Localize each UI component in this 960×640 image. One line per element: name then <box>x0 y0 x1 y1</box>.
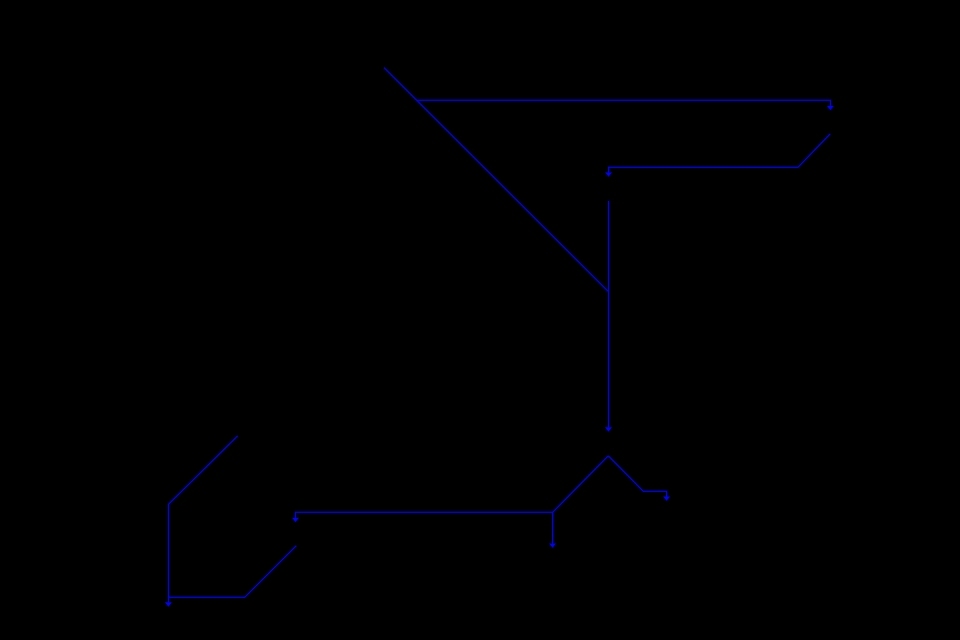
arrowhead into node6 <box>549 544 556 548</box>
arrowhead into node7 <box>663 497 670 501</box>
wire edge nodeX to node8 <box>168 436 237 603</box>
wire edge node5 to node8 <box>168 546 296 598</box>
wire edge node4 to node5 <box>296 456 609 518</box>
arrowhead into node3 <box>605 172 612 176</box>
arrowhead into node8 <box>165 602 172 607</box>
wire edge node4 to node6 vertical drop <box>552 512 554 543</box>
wire edge top-node to mid-node diagonal <box>384 68 608 292</box>
wire edge top-node to node2 horizontal <box>417 100 831 106</box>
arrowhead into node4 <box>605 427 612 432</box>
arrowhead into node5 <box>292 518 299 522</box>
wire edge node2 to node3 <box>609 134 831 173</box>
wire edge node4 to node7 <box>608 456 666 497</box>
wire edge node3 to node4 vertical <box>608 201 610 428</box>
arrowhead into node2 <box>827 106 834 110</box>
